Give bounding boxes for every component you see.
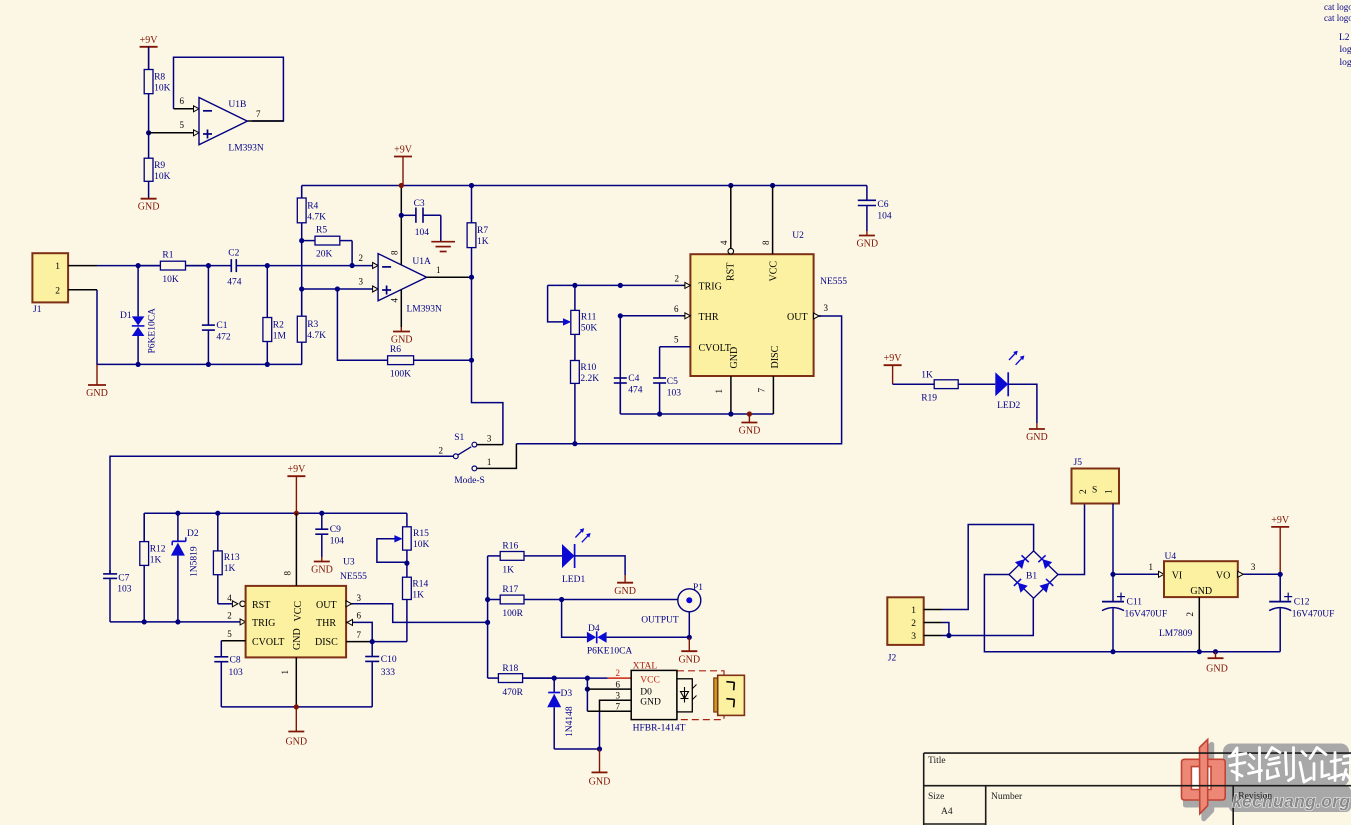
wire P1 to gnd xyxy=(688,612,690,638)
junction C9 top node xyxy=(319,511,324,516)
svg-text:C1: C1 xyxy=(216,321,227,331)
svg-text:7: 7 xyxy=(256,109,261,119)
junction D3 node xyxy=(552,676,557,681)
wire J1 pin2 to gnd rail xyxy=(97,290,302,365)
svg-text:GND: GND xyxy=(856,239,878,250)
junction P1/D4 node xyxy=(687,635,692,640)
svg-text:LED2: LED2 xyxy=(997,401,1020,411)
svg-text:RST: RST xyxy=(252,600,270,611)
capacitor C4 xyxy=(614,316,627,414)
svg-text:LM393N: LM393N xyxy=(407,305,443,315)
svg-text:D4: D4 xyxy=(588,624,600,634)
svg-text:104: 104 xyxy=(877,212,892,222)
wire out down to S1 xyxy=(472,277,503,444)
svg-text:L2 lo: L2 lo xyxy=(1339,33,1351,43)
IC U2 body xyxy=(690,254,813,376)
watermark logo glyph xyxy=(1182,739,1351,818)
svg-text:R10: R10 xyxy=(580,363,596,373)
wire S1 pin3 xyxy=(477,444,503,446)
svg-text:RST: RST xyxy=(726,263,737,281)
svg-text:GND: GND xyxy=(391,335,413,346)
svg-text:DISC: DISC xyxy=(315,637,338,648)
svg-text:VO: VO xyxy=(1216,570,1230,581)
svg-text:5: 5 xyxy=(674,335,679,345)
diode D4 (P6KE10CA TVS) xyxy=(587,631,607,643)
svg-text:1K: 1K xyxy=(412,590,424,600)
svg-text:1K: 1K xyxy=(477,237,489,247)
svg-text:474: 474 xyxy=(227,278,242,288)
svg-text:GND: GND xyxy=(86,388,108,399)
pin arrow U3 THR xyxy=(347,619,353,625)
resistor R12 xyxy=(140,513,149,622)
wire U3 THR wire xyxy=(353,622,372,641)
power GND (LED1) xyxy=(614,583,636,597)
resistor R10 xyxy=(571,345,580,444)
junction R17/P1 node xyxy=(559,597,564,602)
svg-text:474: 474 xyxy=(628,386,643,396)
svg-text:C3: C3 xyxy=(414,199,425,209)
junction out/R7 node xyxy=(469,275,474,280)
svg-text:GND: GND xyxy=(739,426,761,437)
svg-text:J2: J2 xyxy=(888,654,897,664)
wire vertical R4-R3 chain xyxy=(301,241,303,317)
svg-text:1: 1 xyxy=(911,606,916,616)
wire D3 to gnd xyxy=(554,748,599,750)
svg-text:S1: S1 xyxy=(454,433,464,443)
wire XTAL pin3 stub xyxy=(600,700,632,711)
svg-text:A4: A4 xyxy=(941,807,953,817)
svg-text:3: 3 xyxy=(359,277,364,287)
junction XTAL pin6 node xyxy=(585,687,590,692)
resistor R4 xyxy=(297,186,306,241)
svg-text:1N4148: 1N4148 xyxy=(565,706,575,737)
svg-text:GND: GND xyxy=(1190,586,1212,597)
svg-text:8: 8 xyxy=(761,240,771,245)
svg-text:VI: VI xyxy=(1172,570,1183,581)
wire U3 THR stub xyxy=(346,621,353,623)
svg-text:+9V: +9V xyxy=(884,353,903,364)
potentiometer R11 xyxy=(571,285,580,345)
svg-text:R12: R12 xyxy=(150,545,166,555)
svg-text:GND: GND xyxy=(311,565,333,576)
svg-text:logo: logo xyxy=(1340,45,1351,55)
svg-text:logo: logo xyxy=(1340,58,1351,68)
junction OUT wire node xyxy=(485,620,490,625)
power GND (supply) xyxy=(1206,652,1228,675)
svg-text:LED1: LED1 xyxy=(562,575,585,585)
wire LED2 to gnd xyxy=(1008,384,1037,423)
junction rail gnd stub node xyxy=(1213,649,1218,654)
svg-text:3: 3 xyxy=(824,303,829,313)
svg-text:R7: R7 xyxy=(477,226,488,236)
svg-text:1: 1 xyxy=(55,262,60,272)
power +9V (U1A) xyxy=(394,145,413,186)
wire R6 left vertical xyxy=(337,289,387,360)
svg-text:Revision: Revision xyxy=(1238,792,1272,802)
svg-text:GND: GND xyxy=(138,202,160,213)
wire XTAL pin7 stub xyxy=(587,710,631,712)
wire U2 RST pin4 xyxy=(730,186,732,249)
svg-text:1K: 1K xyxy=(224,564,236,574)
resistor R13 xyxy=(213,513,222,604)
pin arrow U2 OUT xyxy=(814,313,820,319)
junction RST rail node xyxy=(728,183,733,188)
svg-text:1K: 1K xyxy=(150,556,162,566)
wire C11 to U4 VI xyxy=(1113,573,1159,575)
svg-text:+9V: +9V xyxy=(1271,515,1290,526)
junction D3 gnd node xyxy=(597,746,602,751)
pin arrow U3 OUT xyxy=(346,601,352,607)
capacitor C11 xyxy=(1102,574,1125,651)
XTAL optical connector xyxy=(714,675,745,715)
svg-text:C4: C4 xyxy=(628,374,639,384)
wire U2 THR pin6 stub xyxy=(683,315,690,317)
svg-text:cat logo: cat logo xyxy=(1324,13,1351,23)
svg-text:1N5819: 1N5819 xyxy=(190,546,200,577)
earth ground (C3) xyxy=(431,242,455,252)
svg-text:R6: R6 xyxy=(390,345,401,355)
pin arrow U1B pin5 xyxy=(194,130,200,136)
wire U3 gnd rail xyxy=(221,706,372,708)
junction C1 bottom node xyxy=(206,362,211,367)
junction C11 gnd node xyxy=(1110,649,1115,654)
svg-text:S: S xyxy=(1092,486,1097,496)
wire U4 pin3 to +9V node xyxy=(1243,573,1280,575)
svg-text:1: 1 xyxy=(280,670,290,675)
pin arrow U3 TRIG xyxy=(240,619,246,625)
svg-text:2: 2 xyxy=(359,253,364,263)
wire R14 bottom to DISC xyxy=(372,641,407,643)
svg-text:TRIG: TRIG xyxy=(699,282,722,293)
svg-text:GND: GND xyxy=(285,737,307,748)
svg-text:104: 104 xyxy=(415,228,430,238)
junction XTAL vcc node xyxy=(585,676,590,681)
resistor R2 xyxy=(263,266,272,365)
wire S1 pin1 xyxy=(477,444,517,469)
svg-text:1: 1 xyxy=(1105,489,1115,494)
wire J2 pin2 jog xyxy=(942,623,949,636)
wire C4 bottom corner xyxy=(619,378,621,414)
R15 wiper arrow xyxy=(394,535,402,542)
connector J2 xyxy=(887,597,923,645)
junction C3 node xyxy=(399,213,404,218)
svg-text:6: 6 xyxy=(357,611,362,621)
junction J2 pin2/3 node xyxy=(946,633,951,638)
svg-text:R8: R8 xyxy=(154,73,165,83)
wire J5 pin1 to C11 xyxy=(1112,504,1114,575)
svg-text:R3: R3 xyxy=(307,320,318,330)
wire TRIG loop to R11 wiper xyxy=(548,285,566,322)
svg-text:VCC: VCC xyxy=(640,675,660,685)
svg-text:CVOLT: CVOLT xyxy=(699,343,731,354)
svg-text:U4: U4 xyxy=(1165,552,1177,562)
svg-text:R4: R4 xyxy=(307,201,318,211)
svg-text:3: 3 xyxy=(487,434,492,444)
svg-text:10K: 10K xyxy=(154,84,171,94)
junction R13 top node xyxy=(215,511,220,516)
svg-text:Title: Title xyxy=(928,756,946,766)
wire U1A out xyxy=(427,276,472,278)
capacitor C8 xyxy=(214,641,228,707)
wire R17 to P1 xyxy=(562,599,678,601)
svg-text:2: 2 xyxy=(1079,489,1089,494)
power +9V (LED2) xyxy=(884,353,903,384)
wire R15 wiper loop xyxy=(377,539,407,563)
svg-text:GND: GND xyxy=(1026,432,1048,443)
svg-text:GND: GND xyxy=(292,628,303,650)
svg-text:NE555: NE555 xyxy=(340,572,367,582)
svg-text:472: 472 xyxy=(216,333,231,343)
svg-text:OUTPUT: OUTPUT xyxy=(641,616,679,626)
svg-text:CVOLT: CVOLT xyxy=(252,637,284,648)
svg-text:6: 6 xyxy=(616,679,621,689)
svg-text:B1: B1 xyxy=(1026,572,1037,582)
junction C5 bottom node xyxy=(657,411,662,416)
junction R5/pin2 node xyxy=(350,263,355,268)
power +9V (output) xyxy=(1271,515,1290,574)
capacitor C10 xyxy=(365,642,379,707)
svg-text:NE555: NE555 xyxy=(820,277,847,287)
junction C4 top node xyxy=(618,283,623,288)
wire U1B pin5 xyxy=(149,132,194,134)
XTAL LED emitter box xyxy=(677,679,697,712)
wire U3 VCC pin8 xyxy=(295,513,297,586)
svg-text:+9V: +9V xyxy=(394,145,413,156)
svg-text:GND: GND xyxy=(614,586,636,597)
svg-text:4.7K: 4.7K xyxy=(307,331,326,341)
svg-text:5: 5 xyxy=(227,629,232,639)
svg-text:J5: J5 xyxy=(1074,458,1083,468)
junction R8/R9/pin5 node xyxy=(146,130,151,135)
resistor R16 xyxy=(488,552,562,561)
wire J2 pin1 stub xyxy=(924,609,942,611)
wire rail corner to R4 xyxy=(301,186,303,199)
svg-text:4: 4 xyxy=(390,298,400,303)
svg-text:OUT: OUT xyxy=(787,312,808,323)
wire TRIG row xyxy=(548,284,683,286)
svg-text:103: 103 xyxy=(117,585,132,595)
junction DISC/C10 node xyxy=(370,639,375,644)
pin arrow U1A pin2 xyxy=(373,263,379,269)
svg-text:Mode-S: Mode-S xyxy=(454,476,485,486)
svg-text:2: 2 xyxy=(1185,612,1195,617)
capacitor C9 xyxy=(315,513,328,557)
svg-text:R15: R15 xyxy=(413,529,429,539)
svg-text:1M: 1M xyxy=(273,332,287,342)
bridge rectifier B1 xyxy=(1009,551,1058,598)
svg-text:3: 3 xyxy=(357,593,362,603)
svg-text:5: 5 xyxy=(180,120,185,130)
wire J2 pin2 stub xyxy=(924,622,942,624)
svg-text:7: 7 xyxy=(757,388,767,393)
resistor R6 xyxy=(388,356,472,365)
IC U4 body xyxy=(1164,561,1238,597)
wire XTAL pin2 vcc stub xyxy=(608,677,632,679)
potentiometer R15 xyxy=(403,513,412,563)
svg-text:DISC: DISC xyxy=(770,345,781,368)
resistor R3 xyxy=(297,289,306,364)
svg-text:2: 2 xyxy=(675,274,680,284)
wire XTAL pin7 gnd riser xyxy=(599,711,601,749)
junction +9V rail junction xyxy=(399,183,404,188)
svg-text:C5: C5 xyxy=(667,377,678,387)
svg-text:R11: R11 xyxy=(581,313,597,323)
svg-text:R5: R5 xyxy=(316,226,327,236)
wire J2 pin1 to bridge top xyxy=(942,525,1034,610)
capacitor C5 xyxy=(653,347,690,414)
svg-text:R17: R17 xyxy=(502,585,518,595)
wire U1A pin4 power xyxy=(400,290,402,328)
wire U2 lower gnd rail xyxy=(620,413,773,415)
power GND (R9) xyxy=(138,199,160,213)
diode D1 (P6KE10CA TVS) xyxy=(132,266,145,365)
junction D1 top node xyxy=(136,263,141,268)
svg-text:8: 8 xyxy=(283,571,293,576)
wire U2 TRIG pin2 stub xyxy=(683,284,690,286)
svg-text:8: 8 xyxy=(390,250,400,255)
svg-text:cat logo: cat logo xyxy=(1324,2,1351,12)
svg-text:+9V: +9V xyxy=(287,464,306,475)
wire THR row xyxy=(620,315,683,317)
wire U1B output pin7 xyxy=(247,120,283,122)
resistor R9 xyxy=(144,133,153,199)
svg-text:2: 2 xyxy=(227,611,232,621)
junction D2 bottom node xyxy=(175,619,180,624)
IC U3 body xyxy=(246,586,347,658)
capacitor C2 xyxy=(186,259,268,272)
XTAL dashed box xyxy=(677,671,724,720)
junction pin3/R6 node xyxy=(335,286,340,291)
power GND (U3) xyxy=(285,707,307,748)
svg-text:333: 333 xyxy=(381,668,396,678)
svg-text:D0: D0 xyxy=(640,687,652,697)
wire R18 to XTAL xyxy=(523,677,608,679)
wire R13 to RST xyxy=(218,603,233,605)
svg-text:2.2K: 2.2K xyxy=(580,374,599,384)
svg-text:10K: 10K xyxy=(413,540,430,550)
wire U2 OUT long wire xyxy=(516,316,841,444)
power GND (C9) xyxy=(311,557,333,576)
capacitor C1 xyxy=(202,266,215,365)
svg-text:10K: 10K xyxy=(154,172,171,182)
svg-text:HFBR-1414T: HFBR-1414T xyxy=(633,724,686,734)
junction U2 gnd stub node xyxy=(747,411,752,416)
wire pin3 row xyxy=(302,288,373,290)
junction R12 bottom node xyxy=(142,619,147,624)
junction R2 bottom node xyxy=(265,362,270,367)
wire signal to pin2 xyxy=(267,265,372,267)
wire U3 CVOLT pin5 xyxy=(221,640,245,642)
wire U3 DISC stub xyxy=(346,641,372,643)
junction R4/R5 node xyxy=(299,238,304,243)
power GND (U2) xyxy=(739,414,761,437)
junction +9V/C12 node xyxy=(1278,572,1283,577)
watermark logo text xyxy=(1229,748,1351,812)
wire U1B feedback xyxy=(174,57,284,121)
power GND (P1) stub xyxy=(688,637,690,651)
wire U3 +9V rail xyxy=(144,512,407,514)
svg-text:16V470UF: 16V470UF xyxy=(1125,610,1168,620)
svg-text:C9: C9 xyxy=(330,525,341,535)
svg-text:1: 1 xyxy=(714,389,724,394)
power GND (P1) xyxy=(678,651,700,665)
power +9V (R8) xyxy=(140,35,159,70)
R11 wiper arrow xyxy=(563,318,571,325)
wire U3 GND pin1 xyxy=(295,657,297,707)
svg-text:R18: R18 xyxy=(502,664,518,674)
power GND (J1) stub xyxy=(96,364,98,385)
pin arrow U2 THR xyxy=(685,313,691,319)
svg-text:1K: 1K xyxy=(921,371,933,381)
svg-text:100R: 100R xyxy=(502,609,523,619)
junction VCC rail node xyxy=(770,183,775,188)
junction R15/R14 node xyxy=(404,561,409,566)
svg-text:GND: GND xyxy=(640,698,661,708)
diode D2 (1N5819) xyxy=(171,513,186,622)
switch S1 xyxy=(453,442,476,471)
junction R2 top node xyxy=(265,263,270,268)
wire D4 branch xyxy=(562,600,587,638)
svg-text:GND: GND xyxy=(589,777,611,788)
wire U3 OUT wire xyxy=(353,604,488,623)
svg-text:U1B: U1B xyxy=(228,100,246,110)
wire J2 pin3 to bridge bottom xyxy=(942,598,1033,635)
LED LED1 xyxy=(562,528,591,568)
svg-text:2: 2 xyxy=(911,619,916,629)
wire XTAL pin6 stub xyxy=(587,688,631,690)
svg-text:50K: 50K xyxy=(581,324,598,334)
resistor R19 xyxy=(893,380,996,389)
svg-text:1: 1 xyxy=(1149,562,1154,572)
pin arrow U2 TRIG xyxy=(685,282,691,288)
svg-text:LM393N: LM393N xyxy=(228,144,264,154)
svg-text:+9V: +9V xyxy=(140,35,159,46)
wire U1B pin6 xyxy=(174,108,194,110)
svg-text:J1: J1 xyxy=(33,305,42,315)
power GND (LED2) stub xyxy=(1036,423,1038,429)
svg-text:P6KE10CA: P6KE10CA xyxy=(148,308,158,354)
svg-text:R1: R1 xyxy=(162,251,173,261)
svg-text:XTAL: XTAL xyxy=(633,662,658,672)
svg-text:GND: GND xyxy=(678,655,700,666)
capacitor C6 xyxy=(858,186,876,232)
connector P1 xyxy=(678,589,701,612)
junction THR/C4 node xyxy=(618,313,623,318)
junction C1 top node xyxy=(206,263,211,268)
svg-text:Size: Size xyxy=(928,792,944,802)
svg-text:C12: C12 xyxy=(1294,598,1310,608)
wire left node vertical xyxy=(487,556,489,678)
svg-text:U2: U2 xyxy=(792,231,804,241)
wire J2 pin3 stub xyxy=(924,635,942,637)
svg-text:103: 103 xyxy=(667,389,682,399)
svg-text:10K: 10K xyxy=(162,275,179,285)
capacitor C7 xyxy=(103,570,117,622)
wire D4 to P1 gnd xyxy=(607,636,690,638)
svg-text:4.7K: 4.7K xyxy=(307,212,326,222)
svg-text:6: 6 xyxy=(674,304,679,314)
resistor R8 xyxy=(144,47,153,133)
wire bridge right to J5 pin2 xyxy=(1058,504,1085,575)
svg-text:3: 3 xyxy=(616,690,621,700)
svg-text:R13: R13 xyxy=(224,553,240,563)
connector J5 xyxy=(1072,469,1120,504)
svg-text:103: 103 xyxy=(229,668,244,678)
junction D1 bottom node xyxy=(136,362,141,367)
svg-text:16V470UF: 16V470UF xyxy=(1292,610,1335,620)
capacitor C3 xyxy=(401,208,441,242)
junction pin3/R3 node xyxy=(299,286,304,291)
